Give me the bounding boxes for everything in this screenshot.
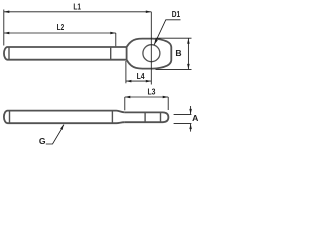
bottom view swage end mark: [111, 111, 113, 124]
D1 leader arrowhead: [154, 39, 158, 45]
bottom view shank outline: [4, 111, 117, 124]
svg-text:L4: L4: [137, 71, 145, 81]
extension line right of L2: [115, 33, 117, 46]
bottom view tongue section line 2: [160, 112, 162, 122]
L3 extension line left: [124, 97, 126, 110]
bottom view flat tongue edges: [125, 112, 163, 122]
dimension line L1: [4, 11, 152, 13]
L2 right arrowhead: [110, 32, 116, 35]
svg-text:G: G: [39, 136, 46, 146]
L4 extension line left: [125, 61, 127, 83]
L2 left arrowhead: [4, 32, 10, 35]
L4 left arrowhead: [126, 80, 131, 83]
G leader line: [46, 125, 64, 144]
left extension line for L1 and L2: [3, 10, 5, 46]
eye centerline: [150, 12, 152, 85]
top view eye hole circle: [143, 45, 160, 62]
top view shank outline: [4, 47, 127, 60]
A arrow stem top: [190, 106, 192, 114]
svg-text:A: A: [192, 113, 198, 123]
B bottom arrowhead: [187, 64, 190, 70]
dimension line B: [187, 38, 189, 69]
bottom view tongue rounded tip: [163, 112, 168, 122]
A top arrowhead: [189, 109, 192, 115]
bottom view taper to flat tongue: [117, 111, 125, 124]
A extension line top: [174, 113, 192, 115]
dimension line L3: [125, 96, 168, 98]
L1 right arrowhead: [146, 11, 152, 14]
A extension line bottom: [174, 123, 192, 125]
bottom view tongue section line 1: [144, 112, 146, 122]
dimension line L2: [4, 32, 116, 34]
B extension line bottom: [156, 68, 192, 70]
dimension line L4: [126, 80, 151, 82]
svg-text:D1: D1: [172, 9, 181, 19]
top view eye outline: [127, 39, 172, 69]
D1 leader line: [154, 20, 180, 45]
svg-text:B: B: [175, 48, 181, 58]
L3 right arrowhead: [163, 96, 169, 99]
G leader arrowhead: [60, 124, 64, 130]
svg-text:L3: L3: [148, 87, 156, 97]
top view swage end mark: [110, 47, 112, 60]
B extension line top: [156, 37, 192, 39]
L1 left arrowhead: [4, 11, 10, 14]
B top arrowhead: [187, 38, 190, 44]
L3 extension line right: [167, 97, 169, 110]
bottom view shank left cap tangent line: [9, 111, 11, 124]
L3 left arrowhead: [125, 96, 131, 99]
top view shank left cap tangent line: [8, 47, 10, 60]
svg-text:L1: L1: [73, 2, 81, 12]
A bottom arrowhead: [189, 124, 192, 130]
A arrow stem bottom: [190, 124, 192, 132]
L4 right arrowhead: [146, 80, 152, 83]
svg-text:L2: L2: [57, 22, 65, 32]
